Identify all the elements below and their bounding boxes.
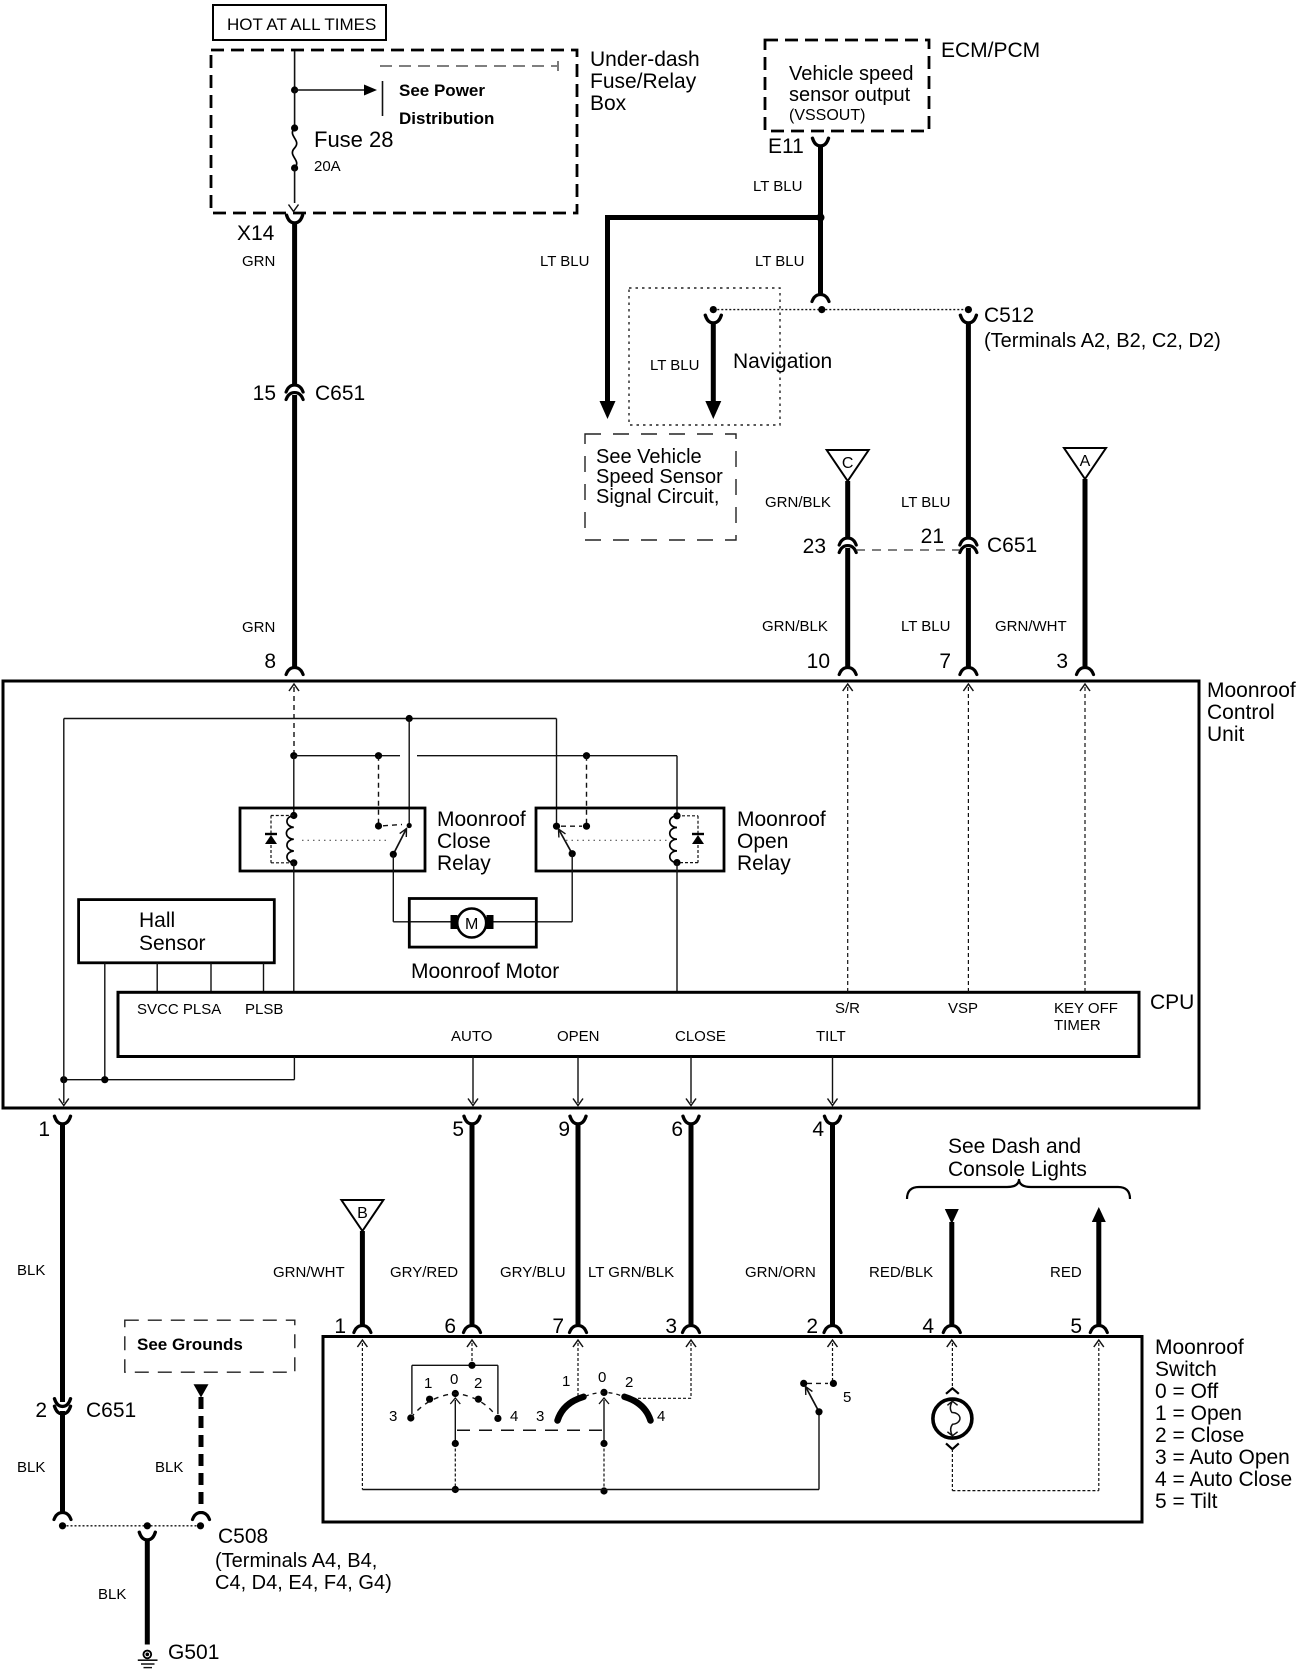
svg-text:Under-dash: Under-dash [590,48,700,71]
wire close relay moving contact drop [408,719,410,825]
svg-text:BLK: BLK [98,1586,126,1603]
lamp bottom wire [952,1449,1098,1491]
illumination lamp [933,1388,972,1449]
svg-text:RED/BLK: RED/BLK [869,1264,933,1281]
hall sensor SVCC wire [156,963,158,993]
wire LT GRN/BLK pin6 to switch [588,1123,691,1325]
svg-text:Open: Open [737,830,788,853]
pin 3 inner wire to KEY OFF TIMER [1080,684,1090,992]
svg-text:B: B [357,1205,368,1222]
svg-text:0: 0 [598,1369,606,1386]
open relay coil [670,812,681,866]
connector switch pin 6 [444,1315,480,1338]
dashed wire to open relay fixed contact [586,756,588,827]
switch pin 4 inner wire [947,1340,957,1388]
triangle connector A [1064,448,1106,479]
label See Power Distribution [399,81,494,128]
mechanical linkage dashes [457,1429,604,1431]
close relay armature link (dotted) [302,839,390,841]
hall sensor box [79,900,275,963]
svg-text:Fuse 28: Fuse 28 [314,127,394,152]
svg-text:See Grounds: See Grounds [137,1335,243,1354]
svg-text:Switch: Switch [1155,1358,1217,1381]
connector pin 4 bottom [812,1116,840,1141]
svg-text:3 = Auto Open: 3 = Auto Open [1155,1446,1290,1469]
label C508 terminals [215,1525,392,1594]
switch pin 1 inner wire [357,1340,367,1490]
wire BLK pin1 to C651 [17,1123,63,1402]
svg-text:Moonroof: Moonroof [1207,679,1296,702]
hall sensor PLSA wire [210,963,212,993]
triangle connector C [827,450,869,481]
connector C508 drop [139,1532,155,1540]
connector switch pin 1 [334,1315,371,1338]
ground G501 [138,1641,220,1668]
node close relay fixed contact tap [375,752,382,759]
svg-text:4 = Auto Close: 4 = Auto Close [1155,1468,1292,1491]
svg-text:(Terminals A2, B2, C2, D2): (Terminals A2, B2, C2, D2) [984,330,1221,352]
triangle connector B [341,1200,383,1231]
svg-text:Vehicle speed: Vehicle speed [789,63,914,85]
svg-text:Control: Control [1207,701,1275,724]
svg-text:Relay: Relay [737,852,791,875]
hall sensor ground wire [104,963,106,1080]
svg-text:X14: X14 [237,222,275,245]
svg-text:Box: Box [590,92,627,115]
wire fuse to box edge with arrow [289,168,299,212]
svg-text:2: 2 [474,1375,482,1392]
dashed BLK ground wire [155,1397,201,1512]
connector switch pin 3 [665,1315,699,1338]
moonroof control unit box [3,679,1296,1108]
svg-text:Close: Close [437,830,491,853]
node open relay fixed contact tap [583,752,590,759]
wire branch to vehicle speed sensor circuit [540,215,821,419]
svg-text:Fuse/Relay: Fuse/Relay [590,70,697,93]
svg-text:C651: C651 [315,382,365,405]
open relay switch [553,823,590,858]
connector E11 [768,135,829,158]
svg-text:S/R: S/R [835,1000,860,1017]
relay box: moonroof open relay [536,808,826,875]
svg-text:(VSSOUT): (VSSOUT) [789,107,865,124]
svg-text:G501: G501 [168,1641,219,1664]
connector switch pin 7 [552,1315,586,1338]
switch pin 5 inner wire [1094,1340,1104,1491]
node junction at speed signal tee [817,214,825,222]
close relay switch [375,822,412,858]
left rotary wiper [450,1398,460,1493]
svg-text:6: 6 [671,1118,683,1141]
svg-text:LT BLU: LT BLU [901,618,950,635]
ground rail inside control unit [60,1076,294,1083]
svg-text:GRN: GRN [242,253,275,270]
wire GRN/BLK C651 to pin 10 [762,548,848,668]
svg-text:3: 3 [389,1408,397,1425]
label HOT AT ALL TIMES [213,5,386,40]
switch pin 6 inner wire [467,1340,477,1365]
svg-text:8: 8 [264,650,276,673]
connector pin 1 bottom [38,1116,70,1141]
svg-text:KEY OFF: KEY OFF [1054,1000,1118,1017]
connector switch pin 2 [806,1315,841,1338]
svg-text:GRN/BLK: GRN/BLK [762,618,828,635]
svg-text:2: 2 [806,1315,818,1338]
connector at pin 3 [1056,650,1093,675]
switch pin 3 inner wire [638,1340,696,1398]
moonroof switch box [323,1337,1142,1523]
svg-text:0: 0 [450,1371,458,1388]
svg-text:2: 2 [35,1399,47,1422]
close relay clamp diode [265,816,294,863]
navigation dotted box [629,288,832,425]
connector end above C512 line [812,295,829,302]
hint dashed line inside fuse box [380,65,557,67]
connector C512 drop [960,315,976,323]
switch common rail [362,1412,819,1490]
pin 10 inner wire to S/R [843,684,853,992]
svg-text:2 = Close: 2 = Close [1155,1424,1244,1447]
wire close relay coil to CPU [293,863,295,993]
CPU TILT output wire [828,1057,838,1106]
dashed connector link line [856,549,960,551]
svg-text:RED: RED [1050,1264,1082,1281]
svg-text:Hall: Hall [139,909,175,932]
CPU AUTO output wire [468,1057,478,1106]
svg-text:10: 10 [807,650,830,673]
node pin8 junction [290,752,297,759]
brace for dash lights [907,1179,1130,1199]
svg-text:1 = Open: 1 = Open [1155,1402,1242,1425]
svg-text:LT BLU: LT BLU [753,178,802,195]
svg-text:Moonroof: Moonroof [437,808,526,831]
close relay coil [286,812,297,867]
connector pin 5 bottom [452,1116,480,1141]
svg-text:LT GRN/BLK: LT GRN/BLK [588,1264,674,1281]
svg-text:15: 15 [253,382,276,405]
svg-text:sensor output: sensor output [789,84,911,106]
open relay clamp diode [677,816,704,863]
C512 bus line [710,306,972,313]
switch pin 2 inner wire [828,1340,838,1383]
CPU OPEN output wire [573,1057,583,1106]
svg-text:AUTO: AUTO [451,1028,492,1045]
svg-text:BLK: BLK [155,1459,183,1476]
svg-text:SVCC PLSA: SVCC PLSA [137,1001,221,1018]
svg-text:See Dash and: See Dash and [948,1135,1081,1158]
pin 7 inner wire to VSP [963,684,973,992]
svg-text:Console Lights: Console Lights [948,1158,1087,1181]
svg-text:TILT: TILT [816,1028,846,1045]
svg-text:BLK: BLK [17,1459,45,1476]
wire BLK C651 to C508 [17,1411,63,1512]
svg-text:GRY/BLU: GRY/BLU [500,1264,566,1281]
svg-text:LT BLU: LT BLU [755,253,804,270]
svg-text:4: 4 [510,1408,518,1425]
svg-text:6: 6 [444,1315,456,1338]
see grounds box [125,1320,295,1372]
svg-text:Unit: Unit [1207,723,1245,746]
wire GRY/BLU pin9 to switch [500,1123,578,1325]
wire RED to dash lights [1050,1207,1106,1325]
svg-text:1: 1 [334,1315,346,1338]
node on upper bus [406,715,413,722]
svg-text:4: 4 [922,1315,934,1338]
right rotary wiper [599,1398,609,1495]
svg-text:CPU: CPU [1150,991,1194,1014]
connector at pin 7 [939,650,977,675]
svg-text:Relay: Relay [437,852,491,875]
wire GRN/WHT from A to pin 3 [995,479,1085,668]
svg-text:A: A [1080,453,1091,470]
svg-text:HOT AT ALL TIMES: HOT AT ALL TIMES [227,15,376,34]
CPU ground stub [293,1057,295,1080]
node junction to see-power-distribution [291,86,298,93]
svg-text:23: 23 [803,535,826,558]
svg-text:GRN/BLK: GRN/BLK [765,494,831,511]
wire BLK to G501 [98,1539,147,1645]
svg-text:See Vehicle: See Vehicle [596,446,702,468]
connector switch pin 4 [922,1315,960,1338]
wire GRN/ORN pin4 to switch [745,1123,833,1325]
svg-text:TIMER: TIMER [1054,1017,1101,1034]
label C512 terminals [984,304,1221,352]
label see dash and console lights [948,1135,1087,1181]
wire GRN/BLK from C to C651 [765,481,848,538]
svg-text:M: M [465,916,478,933]
wire RED/BLK from dash lights [869,1209,959,1325]
connector end above C508 rail (right) [193,1513,210,1520]
svg-text:C508: C508 [218,1525,268,1548]
svg-text:20A: 20A [314,158,341,175]
svg-text:Sensor: Sensor [139,932,206,955]
svg-text:Signal Circuit,: Signal Circuit, [596,486,719,508]
tilt switch [800,1380,851,1416]
svg-text:3: 3 [665,1315,677,1338]
right rotary contacts and arcs [536,1369,665,1425]
svg-text:3: 3 [536,1408,544,1425]
switch pin 7 inner wire [573,1340,583,1396]
connector C651 pin 21 [921,525,1038,557]
svg-text:0 = Off: 0 = Off [1155,1380,1218,1403]
svg-text:(Terminals A4, B4,: (Terminals A4, B4, [215,1550,377,1572]
relay box: moonroof close relay [240,808,526,875]
pin 1 inner wire [59,719,69,1106]
left rotary contacts [389,1371,518,1425]
svg-text:Speed Sensor: Speed Sensor [596,466,723,488]
connector switch pin 5 [1070,1315,1107,1338]
wire GRN C651 to control unit pin 8 [242,395,295,668]
wire GRN X14 to C651 [242,222,295,385]
svg-text:1: 1 [38,1118,50,1141]
wire open relay coil to CPU [676,863,678,993]
svg-text:3: 3 [1056,650,1068,673]
ECM/PCM box [765,39,1040,131]
svg-text:GRN/WHT: GRN/WHT [273,1264,345,1281]
svg-text:Distribution: Distribution [399,109,494,128]
connector end above C508 rail (left) [54,1513,71,1520]
connector pin 9 bottom [558,1116,586,1141]
svg-text:C512: C512 [984,304,1034,327]
svg-text:OPEN: OPEN [557,1028,600,1045]
svg-text:4: 4 [657,1408,665,1425]
open relay armature link (dotted) [566,839,668,841]
wire from hot feed down to junction [294,51,296,90]
svg-text:C651: C651 [86,1399,136,1422]
wire LT BLU into navigation [650,322,721,419]
hall sensor PLSB wire [263,963,265,993]
svg-text:PLSB: PLSB [245,1001,283,1018]
left rotary bracket [412,1362,498,1414]
C508 rail [59,1522,204,1529]
wire pin8 feed to close relay coil [293,756,295,816]
moonroof motor [409,899,559,984]
moonroof switch legend [1155,1336,1292,1513]
svg-text:LT BLU: LT BLU [650,357,699,374]
connector C651 pin 23 [803,535,857,558]
CPU box [118,991,1194,1057]
wire GRY/RED pin5 to switch [390,1123,472,1325]
svg-text:7: 7 [552,1315,564,1338]
svg-text:LT BLU: LT BLU [901,494,950,511]
under-dash fuse/relay box [211,48,700,213]
arrow to See Power Distribution [295,81,383,116]
svg-text:7: 7 [939,650,951,673]
see vehicle speed sensor signal circuit box [585,434,736,540]
wire close relay to motor [393,854,455,922]
wire LT BLU E11 down [753,145,821,294]
svg-text:1: 1 [562,1373,570,1390]
svg-text:BLK: BLK [17,1262,45,1279]
connector C651 pin 15 [253,382,366,405]
svg-text:5: 5 [843,1389,851,1406]
svg-text:Moonroof: Moonroof [1155,1336,1244,1359]
wire open relay to motor [491,854,572,922]
svg-text:9: 9 [558,1118,570,1141]
wire LT BLU C651 to pin 7 [901,548,968,668]
svg-text:GRN/WHT: GRN/WHT [995,618,1067,635]
svg-text:LT BLU: LT BLU [540,253,589,270]
pin 8 inner arrow and dashed stem [289,684,299,756]
connector C651 pin 2 [35,1399,136,1422]
svg-text:E11: E11 [768,135,804,158]
svg-text:Moonroof Motor: Moonroof Motor [411,960,559,983]
fuse F28 20A [291,127,394,175]
svg-text:1: 1 [424,1375,432,1392]
svg-text:Navigation: Navigation [733,350,832,373]
svg-text:GRN/ORN: GRN/ORN [745,1264,816,1281]
svg-text:GRY/RED: GRY/RED [390,1264,458,1281]
svg-text:C4, D4, E4, F4, G4): C4, D4, E4, F4, G4) [215,1572,392,1594]
svg-text:Moonroof: Moonroof [737,808,826,831]
svg-text:21: 21 [921,525,944,548]
connector X14 [237,215,303,245]
svg-text:See Power: See Power [399,81,485,100]
wire GRN/WHT B to switch [273,1231,362,1325]
CPU CLOSE output wire [686,1057,696,1106]
svg-text:5: 5 [452,1118,464,1141]
svg-text:C: C [842,455,854,472]
svg-text:C651: C651 [987,534,1037,557]
ground feed triangle [194,1384,209,1397]
wire bus line lower (coil feed) [294,756,677,816]
dashed wire to close relay fixed contact [378,756,380,826]
wire LT BLU C512 to C651 [901,322,968,538]
connector into navigation [705,315,721,323]
wire bus line upper (to open relay contact) [64,719,557,827]
svg-text:5 = Tilt: 5 = Tilt [1155,1490,1218,1513]
svg-text:2: 2 [625,1374,633,1391]
svg-text:VSP: VSP [948,1000,978,1017]
connector at pin 10 [807,650,857,675]
svg-text:CLOSE: CLOSE [675,1028,726,1045]
svg-text:GRN: GRN [242,619,275,636]
connector pin 6 bottom [671,1116,699,1141]
CPU pin labels [137,1000,1118,1045]
svg-text:4: 4 [812,1118,824,1141]
wire junction to fuse [291,90,298,132]
connector at pin 8 [264,650,303,675]
svg-text:5: 5 [1070,1315,1082,1338]
svg-text:ECM/PCM: ECM/PCM [941,39,1040,62]
